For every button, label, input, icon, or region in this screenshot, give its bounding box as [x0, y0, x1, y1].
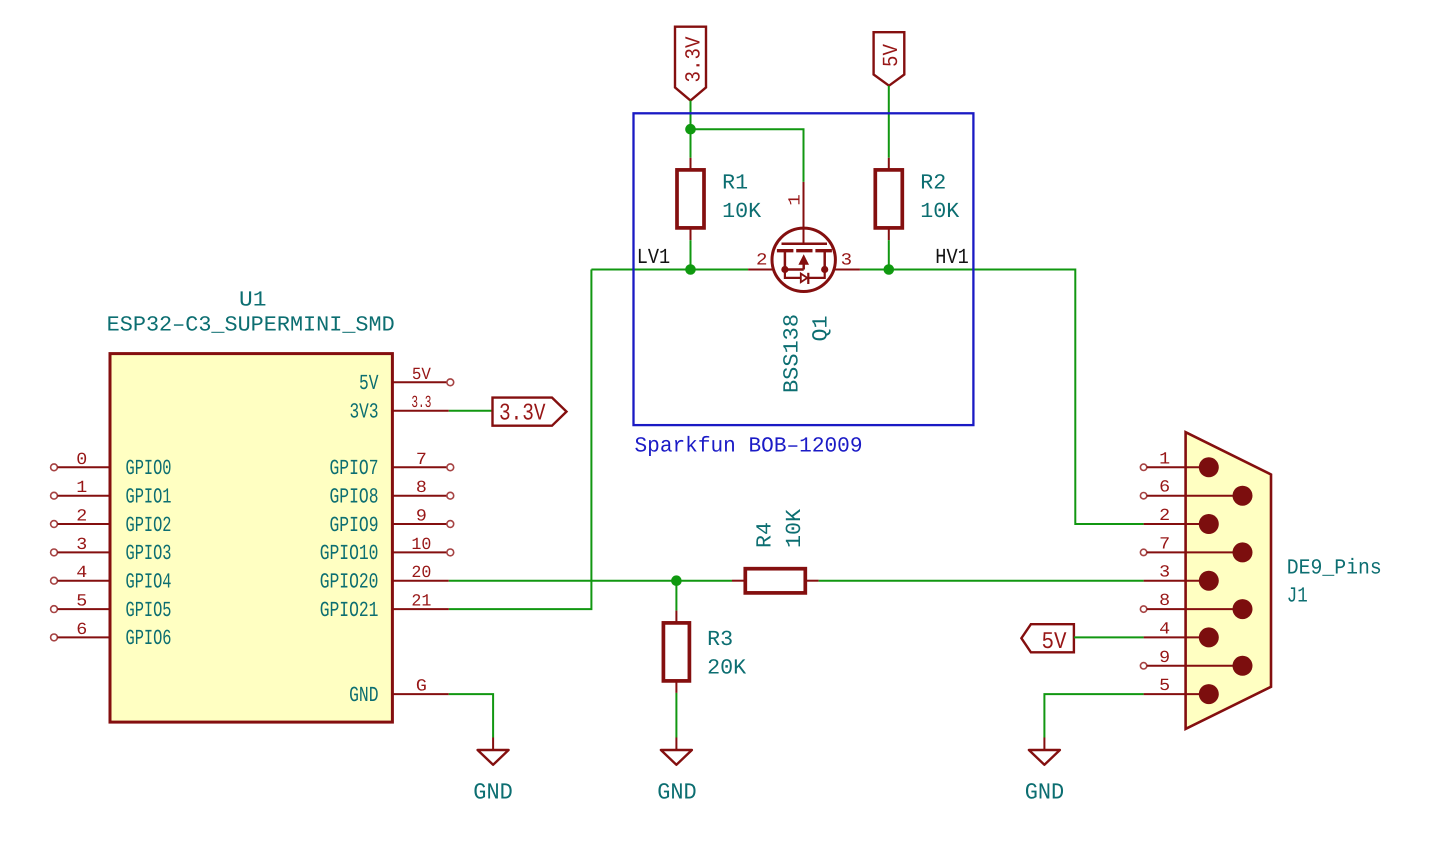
svg-text:GPIO3: GPIO3 [126, 542, 172, 566]
U1 pin GPIO2 [51, 508, 172, 538]
svg-text:5V: 5V [880, 44, 904, 67]
resistor R4 [732, 569, 819, 593]
wire GPIO20 to R4 [449, 580, 732, 582]
svg-text:5: 5 [1159, 677, 1170, 696]
svg-text:GPIO2: GPIO2 [126, 514, 172, 538]
power flag 5V (top) [874, 32, 905, 85]
J1 pin 1 [1140, 450, 1218, 477]
U1 pin 5V [359, 366, 454, 396]
U1 pin GPIO7 [330, 451, 454, 481]
J1 pin 8 [1140, 592, 1252, 619]
svg-text:Sparkfun BOB–12009: Sparkfun BOB–12009 [635, 435, 863, 459]
U1 pin GND [349, 678, 449, 708]
wire U1 GND pin to GND symbol [449, 694, 493, 737]
U1 pin GPIO8 [330, 479, 454, 509]
resistor R2 [875, 158, 902, 240]
wire R2 bottom to HV1 [888, 240, 890, 269]
svg-text:5: 5 [76, 593, 87, 612]
wire J1 pin5 to GND [1044, 694, 1143, 737]
ground symbol (right) [1025, 738, 1065, 806]
svg-text:GND: GND [349, 684, 378, 708]
U1 pin GPIO20 [320, 564, 449, 594]
svg-text:GND: GND [657, 780, 697, 806]
J1 pin 7 [1140, 535, 1252, 562]
svg-text:10K: 10K [722, 200, 761, 224]
svg-text:2: 2 [76, 508, 87, 527]
svg-text:20: 20 [411, 564, 431, 583]
svg-text:9: 9 [416, 508, 427, 527]
svg-text:J1: J1 [1287, 585, 1308, 609]
U1 pin GPIO0 [51, 451, 172, 481]
ground symbol (left) [473, 738, 513, 806]
component U1 box [110, 354, 392, 722]
svg-text:1: 1 [76, 479, 87, 498]
wire 5V label to J1 pin4 [1074, 636, 1144, 638]
svg-text:3: 3 [841, 252, 853, 271]
wire R4 to J1 pin3 [819, 580, 1144, 582]
svg-text:2: 2 [756, 252, 768, 271]
svg-text:10K: 10K [783, 509, 807, 548]
global label 5V (at J1 pin4) [1021, 624, 1074, 656]
svg-text:U1: U1 [239, 289, 267, 313]
resistor R1 [677, 158, 704, 240]
svg-text:GPIO10: GPIO10 [320, 542, 379, 566]
wire junction to gate (horizontal+vertical) [691, 129, 804, 182]
U1 pin GPIO4 [51, 564, 172, 594]
svg-text:1: 1 [787, 194, 806, 206]
junction HV1 [884, 264, 895, 275]
level shifter bounding box (blue) [634, 113, 974, 425]
U1 pin GPIO1 [51, 479, 172, 509]
junction dot 3.3V/R1/gate [685, 124, 696, 135]
svg-text:3: 3 [76, 536, 87, 555]
wire HV1 to J1 pin2 [860, 270, 1144, 525]
junction LV1 [685, 264, 696, 275]
svg-text:GPIO5: GPIO5 [126, 599, 172, 623]
J1 pin 3 [1144, 564, 1219, 591]
svg-text:R4: R4 [754, 522, 778, 548]
svg-text:6: 6 [1159, 479, 1170, 498]
svg-text:GND: GND [473, 780, 513, 806]
svg-text:5V: 5V [412, 366, 432, 385]
wire R1 bottom to LV1 [690, 240, 692, 269]
transistor Q1 BSS138 [748, 182, 860, 292]
power flag 3.3V (top) [675, 27, 707, 101]
U1 pin GPIO10 [320, 536, 454, 566]
wire junction to R1 top [690, 129, 692, 158]
svg-text:3V3: 3V3 [350, 401, 379, 425]
wire LV1 horizontal [591, 269, 748, 271]
svg-text:GND: GND [1025, 780, 1065, 806]
wire junction down to R3 [675, 581, 677, 611]
wire 3.3V flag to junction [690, 101, 692, 130]
svg-text:8: 8 [416, 479, 427, 498]
svg-text:0: 0 [76, 451, 87, 470]
J1 pin 2 [1144, 507, 1219, 534]
svg-text:3.3V: 3.3V [683, 36, 707, 82]
svg-text:GPIO7: GPIO7 [330, 457, 379, 481]
svg-text:21: 21 [411, 593, 431, 612]
J1 pin 9 [1140, 649, 1252, 676]
svg-text:G: G [416, 678, 427, 697]
svg-text:ESP32–C3_SUPERMINI_SMD: ESP32–C3_SUPERMINI_SMD [107, 314, 395, 338]
svg-text:3.3: 3.3 [411, 394, 431, 413]
U1 pin 3V3 [350, 394, 449, 424]
svg-text:GPIO0: GPIO0 [126, 457, 172, 481]
svg-text:9: 9 [1159, 649, 1170, 668]
svg-text:GPIO21: GPIO21 [320, 599, 379, 623]
svg-text:GPIO1: GPIO1 [126, 486, 172, 510]
J1 pin 6 [1140, 479, 1252, 506]
wire 5V flag down to R2 [888, 86, 890, 158]
svg-text:GPIO4: GPIO4 [126, 571, 172, 595]
svg-text:GPIO20: GPIO20 [320, 571, 379, 595]
U1 pin GPIO21 [320, 593, 449, 623]
U1 pin GPIO3 [51, 536, 172, 566]
J1 pin 5 [1144, 677, 1219, 704]
svg-text:GPIO9: GPIO9 [330, 514, 379, 538]
svg-text:3.3V: 3.3V [499, 400, 546, 427]
svg-text:GPIO6: GPIO6 [126, 627, 172, 651]
svg-text:R2: R2 [920, 172, 946, 196]
svg-text:10: 10 [411, 536, 431, 555]
svg-text:7: 7 [416, 451, 427, 470]
svg-text:4: 4 [76, 564, 87, 583]
svg-text:4: 4 [1159, 620, 1170, 639]
svg-text:20K: 20K [707, 656, 746, 680]
ground symbol (middle) [657, 738, 697, 806]
wire GPIO21 net to LV1 [449, 270, 592, 610]
svg-text:2: 2 [1159, 507, 1170, 526]
svg-text:8: 8 [1159, 592, 1170, 611]
svg-text:7: 7 [1159, 535, 1170, 554]
svg-text:HV1: HV1 [935, 246, 969, 270]
wire 3V3 to 3.3V label [449, 410, 493, 412]
svg-text:BSS138: BSS138 [781, 314, 805, 393]
svg-text:R3: R3 [707, 628, 733, 652]
junction GPIO20/R3/R4 [671, 575, 682, 586]
svg-text:R1: R1 [722, 172, 748, 196]
svg-text:GPIO8: GPIO8 [330, 486, 379, 510]
resistor R3 [663, 611, 689, 693]
U1 pin GPIO5 [51, 593, 172, 623]
svg-text:10K: 10K [920, 200, 959, 224]
svg-text:5V: 5V [359, 372, 379, 396]
U1 pin GPIO9 [330, 508, 454, 538]
svg-text:5V: 5V [1042, 629, 1068, 656]
svg-text:LV1: LV1 [637, 246, 671, 270]
U1 pin GPIO6 [51, 621, 172, 651]
svg-text:Q1: Q1 [810, 316, 834, 342]
J1 pin 4 [1144, 620, 1219, 647]
svg-text:DE9_Pins: DE9_Pins [1287, 556, 1382, 580]
svg-text:6: 6 [76, 621, 87, 640]
global label 3.3V [493, 398, 567, 428]
connector J1 body [1186, 432, 1271, 729]
wire R3 to GND [675, 693, 677, 738]
svg-text:3: 3 [1159, 564, 1170, 583]
svg-text:1: 1 [1159, 450, 1170, 469]
